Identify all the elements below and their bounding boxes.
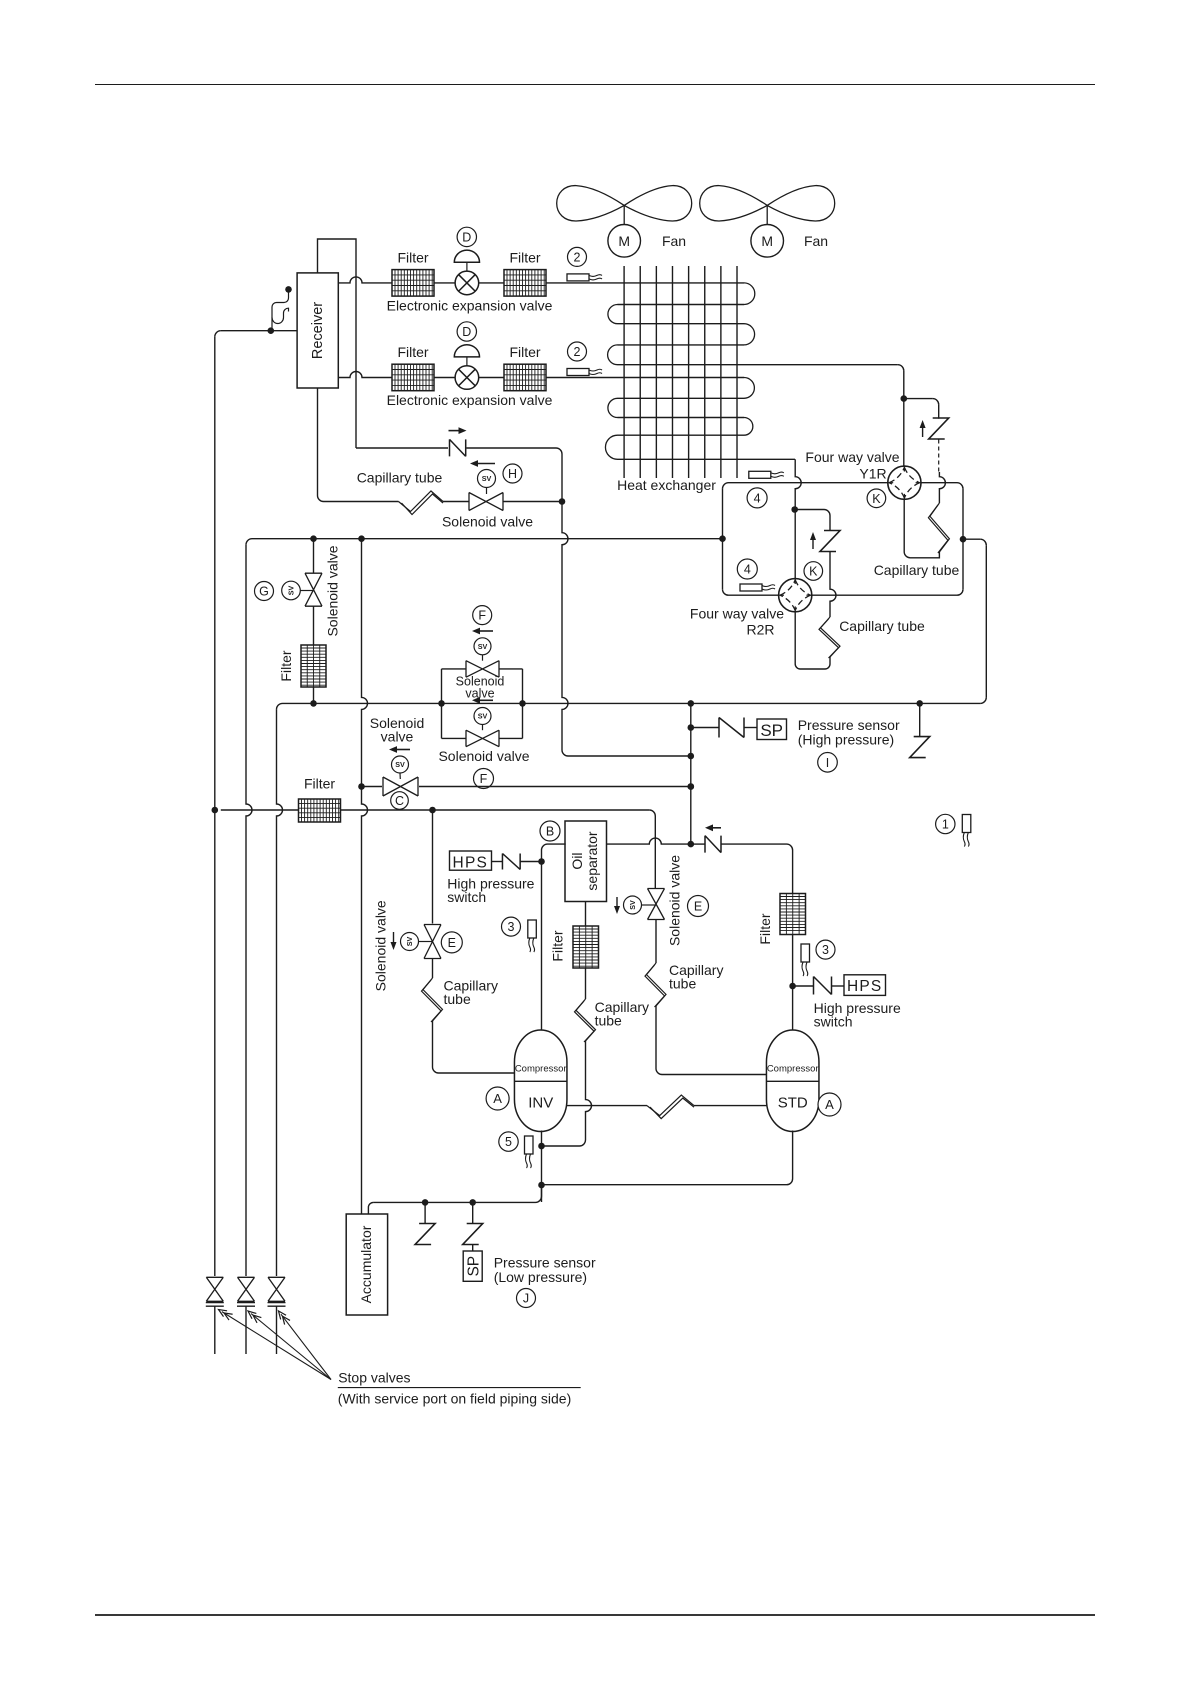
svg-text:Fan: Fan [804, 233, 828, 249]
svg-text:tube: tube [444, 991, 471, 1007]
svg-text:SV: SV [287, 586, 296, 596]
svg-text:D: D [462, 230, 471, 244]
svg-text:A: A [493, 1091, 502, 1106]
svg-text:Fan: Fan [662, 233, 686, 249]
svg-text:5: 5 [505, 1135, 512, 1149]
svg-text:Compressor: Compressor [767, 1064, 819, 1075]
svg-text:F: F [478, 609, 486, 623]
svg-text:3: 3 [822, 943, 829, 957]
svg-text:2: 2 [574, 250, 581, 264]
svg-text:H: H [508, 467, 517, 481]
svg-text:SV: SV [482, 474, 492, 483]
svg-text:Solenoid valve: Solenoid valve [325, 545, 341, 636]
svg-text:Stop valves: Stop valves [338, 1370, 410, 1386]
svg-text:I: I [826, 756, 829, 770]
svg-text:INV: INV [528, 1095, 553, 1112]
svg-text:Oil: Oil [569, 852, 585, 869]
svg-text:Filter: Filter [397, 249, 428, 265]
svg-text:F: F [480, 772, 488, 786]
svg-text:K: K [872, 492, 881, 506]
svg-text:Solenoid valve: Solenoid valve [373, 900, 389, 991]
svg-text:J: J [523, 1292, 529, 1306]
svg-text:SV: SV [478, 642, 488, 651]
svg-text:Receiver: Receiver [310, 302, 326, 359]
svg-text:K: K [809, 565, 818, 579]
svg-text:SV: SV [405, 937, 414, 947]
svg-text:valve: valve [381, 729, 414, 745]
svg-text:Heat exchanger: Heat exchanger [617, 477, 716, 493]
svg-text:SV: SV [395, 760, 405, 769]
svg-text:Four way valve: Four way valve [690, 605, 784, 621]
svg-text:Y1R: Y1R [859, 466, 886, 482]
svg-text:Solenoid valve: Solenoid valve [667, 855, 683, 946]
svg-text:2: 2 [574, 345, 581, 359]
svg-text:E: E [448, 936, 456, 950]
svg-text:separator: separator [584, 831, 600, 890]
svg-text:(Low pressure): (Low pressure) [494, 1269, 587, 1285]
svg-text:Filter: Filter [550, 930, 566, 961]
svg-text:B: B [546, 825, 554, 839]
svg-text:Capillary tube: Capillary tube [839, 618, 925, 634]
svg-text:4: 4 [754, 491, 761, 505]
svg-text:3: 3 [508, 920, 515, 934]
svg-text:M: M [761, 233, 773, 249]
svg-text:Solenoid valve: Solenoid valve [438, 748, 529, 764]
svg-text:1: 1 [942, 818, 949, 832]
svg-text:switch: switch [447, 889, 486, 905]
svg-text:Filter: Filter [304, 776, 335, 792]
svg-text:tube: tube [595, 1013, 622, 1029]
svg-text:HPS: HPS [453, 854, 488, 871]
svg-text:(High pressure): (High pressure) [798, 731, 894, 747]
svg-text:D: D [462, 325, 471, 339]
svg-text:SP: SP [760, 721, 783, 740]
svg-text:SP: SP [466, 1256, 483, 1277]
svg-text:Electronic expansion valve: Electronic expansion valve [387, 297, 553, 313]
svg-text:Filter: Filter [509, 249, 540, 265]
svg-text:Compressor: Compressor [515, 1064, 567, 1075]
svg-text:Four way valve: Four way valve [805, 449, 899, 465]
svg-text:Capillary tube: Capillary tube [874, 562, 960, 578]
svg-text:Electronic expansion valve: Electronic expansion valve [387, 392, 553, 408]
svg-text:Filter: Filter [397, 344, 428, 360]
svg-text:switch: switch [814, 1014, 853, 1030]
svg-text:A: A [825, 1097, 834, 1112]
svg-text:G: G [259, 585, 269, 599]
svg-text:Filter: Filter [278, 650, 294, 681]
svg-text:Solenoid valve: Solenoid valve [442, 514, 533, 530]
svg-text:valve: valve [465, 687, 494, 701]
svg-text:Filter: Filter [757, 913, 773, 944]
svg-text:C: C [395, 794, 404, 808]
svg-text:E: E [694, 900, 702, 914]
svg-text:Accumulator: Accumulator [358, 1225, 374, 1303]
svg-text:R2R: R2R [746, 621, 774, 637]
svg-text:(With service port on field pi: (With service port on field piping side) [338, 1391, 571, 1407]
svg-text:HPS: HPS [847, 978, 882, 995]
svg-text:Capillary tube: Capillary tube [357, 470, 443, 486]
svg-text:STD: STD [778, 1095, 808, 1112]
svg-text:SV: SV [478, 712, 488, 721]
svg-text:4: 4 [744, 563, 751, 577]
svg-text:Filter: Filter [509, 344, 540, 360]
svg-text:SV: SV [628, 900, 637, 910]
svg-text:tube: tube [669, 976, 696, 992]
svg-text:M: M [618, 233, 630, 249]
